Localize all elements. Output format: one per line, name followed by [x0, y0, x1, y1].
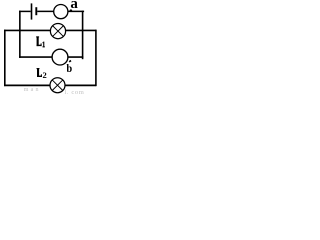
svg-text:b: b	[66, 61, 72, 75]
battery B1 short plate	[35, 7, 37, 15]
wire left vertical from top wire down to third row	[19, 11, 21, 58]
wire bottom row (L2 branch)	[4, 84, 96, 86]
lamp L1	[50, 24, 65, 39]
battery B1 long plate	[31, 3, 33, 19]
wire top meter circle to corner at a	[67, 10, 84, 12]
wire outer left vertical	[4, 30, 6, 86]
lamp L2	[50, 78, 65, 93]
svg-text:a: a	[70, 0, 78, 12]
wire right vertical from a-corner down to third row	[82, 11, 84, 60]
svg-text:l. com: l. com	[65, 89, 85, 95]
wire second row (L1 branch)	[4, 29, 96, 31]
wire battery to top meter circle	[37, 10, 54, 12]
node b tick	[69, 61, 71, 62]
wire outer right vertical	[95, 30, 97, 86]
label L1 (drawn as paths for exact metrics)	[36, 36, 45, 47]
svg-text:man: man	[24, 87, 41, 93]
wire third row	[19, 56, 83, 58]
meter circle (plain) on third wire	[52, 49, 68, 65]
wire top-left segment (corner to battery)	[19, 10, 31, 12]
node a dot	[70, 9, 73, 12]
meter circle (plain) on top wire	[54, 5, 68, 19]
svg-text:2: 2	[43, 70, 47, 80]
label L2 (drawn as paths for exact metrics)	[37, 68, 42, 77]
